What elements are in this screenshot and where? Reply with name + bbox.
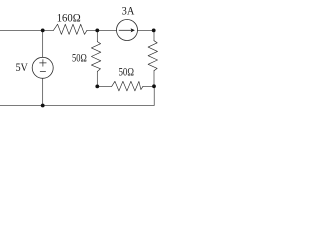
wire right vertical lower [153, 71, 155, 87]
node dot bottom-left [41, 104, 45, 108]
node dot mid-right [152, 84, 156, 88]
wire right edge down to bottom rail [153, 86, 155, 105]
resistor R1 160ohm zigzag [53, 24, 87, 34]
wire bottom rail [0, 104, 154, 106]
wire middle vertical upper [96, 30, 98, 41]
voltage source V1 circle [32, 57, 53, 78]
svg-text:50Ω: 50Ω [72, 50, 87, 64]
wire current source to right corner [138, 29, 154, 31]
svg-text:160Ω: 160Ω [57, 11, 81, 25]
node dot top-right [152, 29, 156, 33]
resistor R3 bottom horizontal 50ohm zigzag [112, 81, 143, 91]
wire between R1 and current source [87, 29, 117, 31]
current source I1 circle [117, 20, 138, 41]
node dot top-middle [95, 29, 99, 33]
svg-text:5V: 5V [15, 60, 28, 74]
node dot mid-left [95, 85, 99, 89]
resistor R2 middle vertical 50ohm zigzag [91, 42, 100, 72]
node dot top-left [41, 29, 45, 33]
wire from middle node to R3 [97, 85, 111, 87]
resistor R4 right vertical zigzag [148, 41, 157, 71]
wire R3 to right node [143, 85, 154, 87]
wire left vertical below voltage source [42, 79, 44, 106]
I1 arrow [119, 29, 131, 31]
wire top-left horizontal [0, 29, 53, 31]
V1 plus sign [40, 60, 47, 67]
V1 minus sign [40, 71, 45, 73]
wire left vertical above voltage source [42, 30, 44, 57]
svg-text:50Ω: 50Ω [118, 65, 134, 79]
wire middle vertical lower [96, 72, 98, 87]
wire right vertical upper [153, 30, 155, 40]
svg-text:3A: 3A [122, 4, 135, 18]
